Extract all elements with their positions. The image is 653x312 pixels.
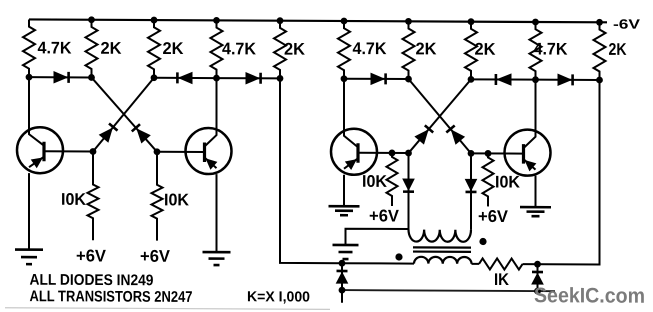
- diode CR2 in Q2 base diagonal: [132, 124, 150, 142]
- diode CR8 output right: [532, 264, 543, 291]
- svg-text:2K: 2K: [416, 39, 438, 58]
- wire cross-coupling Q3 base to R8: [409, 79, 472, 153]
- svg-text:I0K: I0K: [61, 190, 87, 209]
- junction node R10 bottom: [596, 77, 603, 84]
- wire cross-coupling Q1 base to R3: [93, 77, 154, 151]
- resistor 10K Q3 base: [362, 153, 398, 206]
- transistor Q3: [331, 79, 409, 175]
- resistor R5 2K: [274, 21, 306, 79]
- svg-text:2K: 2K: [609, 40, 628, 59]
- svg-text:2K: 2K: [284, 40, 306, 59]
- resistor R3 2K: [148, 20, 184, 78]
- diode D5: [496, 74, 511, 85]
- junction node R8 bottom: [468, 76, 475, 83]
- wire transformer primary left to ground: [346, 229, 409, 246]
- scan artifact line: [5, 308, 330, 310]
- svg-text:K=X I,000: K=X I,000: [247, 289, 310, 305]
- junction rail-R6: [341, 18, 348, 25]
- resistor R1 4.7K: [23, 19, 72, 77]
- junction rail-R10: [596, 19, 603, 26]
- wire output stub: [341, 290, 343, 303]
- junction rail-R8: [468, 18, 475, 25]
- node Q4 base junction: [485, 150, 492, 157]
- ground Q4: [520, 207, 551, 216]
- transformer core: [413, 247, 471, 251]
- wire Q3 diode branch: [408, 153, 410, 230]
- transistor Q2: [157, 78, 232, 174]
- watermark SeekIC.com: [534, 284, 645, 308]
- svg-text:-6V: -6V: [613, 17, 640, 32]
- diode D2: [177, 72, 192, 83]
- resistor 10K Q4 base: [483, 153, 521, 206]
- svg-text:4.7K: 4.7K: [534, 39, 569, 58]
- ground Q2: [203, 252, 231, 265]
- svg-text:2K: 2K: [101, 39, 123, 58]
- svg-text:+6V: +6V: [76, 246, 107, 265]
- label +6V Q3: [369, 206, 400, 225]
- junction node R9 bottom: [532, 76, 539, 83]
- svg-text:I0K: I0K: [495, 172, 521, 191]
- junction node R3 bottom: [151, 74, 158, 81]
- diode D3: [246, 73, 261, 84]
- junction node R2 bottom: [88, 74, 95, 81]
- node Q1 base junction: [90, 148, 97, 155]
- node CR8 bottom: [534, 288, 541, 295]
- junction node R4 bottom: [213, 75, 220, 82]
- wire top -6V supply rail: [29, 19, 607, 22]
- wire cross-coupling Q2 base to R2: [92, 77, 158, 151]
- wire Q4 emitter to ground: [535, 176, 537, 208]
- svg-text:4.7K: 4.7K: [222, 39, 257, 58]
- junction node R5 bottom: [277, 75, 284, 82]
- diode CR7 output left: [337, 263, 348, 290]
- label +6V Q1: [76, 246, 107, 265]
- ground Q3: [329, 206, 360, 215]
- wire R5 to output bus: [280, 78, 342, 263]
- transformer T1 secondary winding: [414, 257, 472, 264]
- svg-text:ALL DIODES IN249: ALL DIODES IN249: [30, 272, 154, 290]
- svg-text:I0K: I0K: [164, 190, 190, 209]
- junction rail-R7: [405, 18, 412, 25]
- transformer T1 primary winding: [409, 230, 471, 242]
- diode CR1 in Q1 base diagonal: [100, 123, 118, 141]
- transistor Q1: [17, 77, 93, 173]
- wire Q2 emitter to ground: [216, 174, 218, 252]
- junction rail-R9: [532, 19, 539, 26]
- diode D1: [54, 72, 69, 83]
- svg-text:+6V: +6V: [478, 207, 509, 226]
- wire bottom output rail: [342, 290, 555, 291]
- resistor R7 2K: [403, 21, 438, 79]
- junction rail-R4: [213, 17, 220, 24]
- wire D4 row: [344, 78, 409, 80]
- junction node R6 bottom: [341, 75, 348, 82]
- wire D6 row: [536, 79, 600, 81]
- note all diodes: [30, 272, 154, 290]
- transistor Q4: [471, 79, 551, 175]
- resistor R8 2K: [465, 22, 496, 80]
- wire Q1 emitter to ground: [28, 173, 30, 250]
- wire Q3 emitter to ground: [343, 175, 345, 207]
- ground transformer: [333, 245, 359, 259]
- svg-text:I0K: I0K: [362, 172, 388, 191]
- diode CR6 vertical: [466, 179, 477, 192]
- wire D1 row: [29, 76, 92, 78]
- junction rail-R3: [151, 17, 158, 24]
- svg-text:IK: IK: [494, 270, 510, 289]
- svg-text:+6V: +6V: [369, 206, 400, 225]
- resistor R9 4.7K: [530, 22, 569, 80]
- svg-text:4.7K: 4.7K: [353, 39, 388, 58]
- resistor 10K Q1 base: [61, 151, 99, 240]
- note K multiplier: [247, 289, 310, 305]
- node Q3 base junction: [389, 150, 396, 157]
- ground Q1: [15, 250, 43, 265]
- label +6V Q4: [478, 207, 509, 226]
- wire Q4 diode branch: [470, 153, 472, 230]
- note all transistors: [30, 288, 193, 306]
- node CR7 bottom: [339, 287, 346, 294]
- junction rail-R2: [88, 16, 95, 23]
- resistor R4 4.7K: [211, 20, 257, 78]
- resistor 10K Q2 base: [152, 152, 190, 241]
- junction rail-R5: [277, 17, 284, 24]
- diode CR4 in Q4 base diagonal: [446, 125, 464, 143]
- node secondary left: [339, 260, 346, 267]
- resistor R10 2K: [594, 22, 628, 80]
- diode CR5 vertical: [403, 179, 414, 192]
- svg-text:4.7K: 4.7K: [38, 38, 73, 57]
- junction node R7 bottom: [405, 76, 412, 83]
- svg-text:SeekIC.com: SeekIC.com: [534, 284, 645, 308]
- label -6V: [613, 17, 640, 32]
- svg-text:2K: 2K: [475, 40, 497, 59]
- diode CR3 in Q3 base diagonal: [415, 125, 433, 143]
- node Q4 diode junction: [468, 150, 475, 157]
- resistor R6 4.7K: [338, 21, 387, 79]
- junction node R1 bottom: [26, 74, 33, 81]
- transformer polarity dot secondary: [395, 253, 402, 260]
- node Q2 base junction: [154, 148, 161, 155]
- wire D5 row: [471, 78, 536, 80]
- svg-text:ALL TRANSISTORS 2N247: ALL TRANSISTORS 2N247: [30, 288, 193, 306]
- node Q3 diode junction: [405, 150, 412, 157]
- svg-text:2K: 2K: [163, 39, 185, 58]
- svg-text:+6V: +6V: [140, 247, 171, 266]
- wire D3 row: [217, 77, 281, 79]
- resistor R2 2K: [86, 20, 123, 78]
- diode D6: [558, 74, 573, 85]
- resistor 1K: [479, 258, 523, 289]
- wire cross-coupling Q4 base to R7: [409, 79, 472, 153]
- wire 1K to R10 branch: [523, 80, 600, 265]
- wire secondary left lead: [342, 262, 414, 264]
- wire secondary right lead: [472, 263, 480, 265]
- node 1K right: [534, 261, 541, 268]
- diode D4: [371, 73, 386, 84]
- wire D2 row: [154, 77, 217, 79]
- transformer polarity dot primary: [479, 238, 486, 245]
- label +6V Q2: [140, 247, 171, 266]
